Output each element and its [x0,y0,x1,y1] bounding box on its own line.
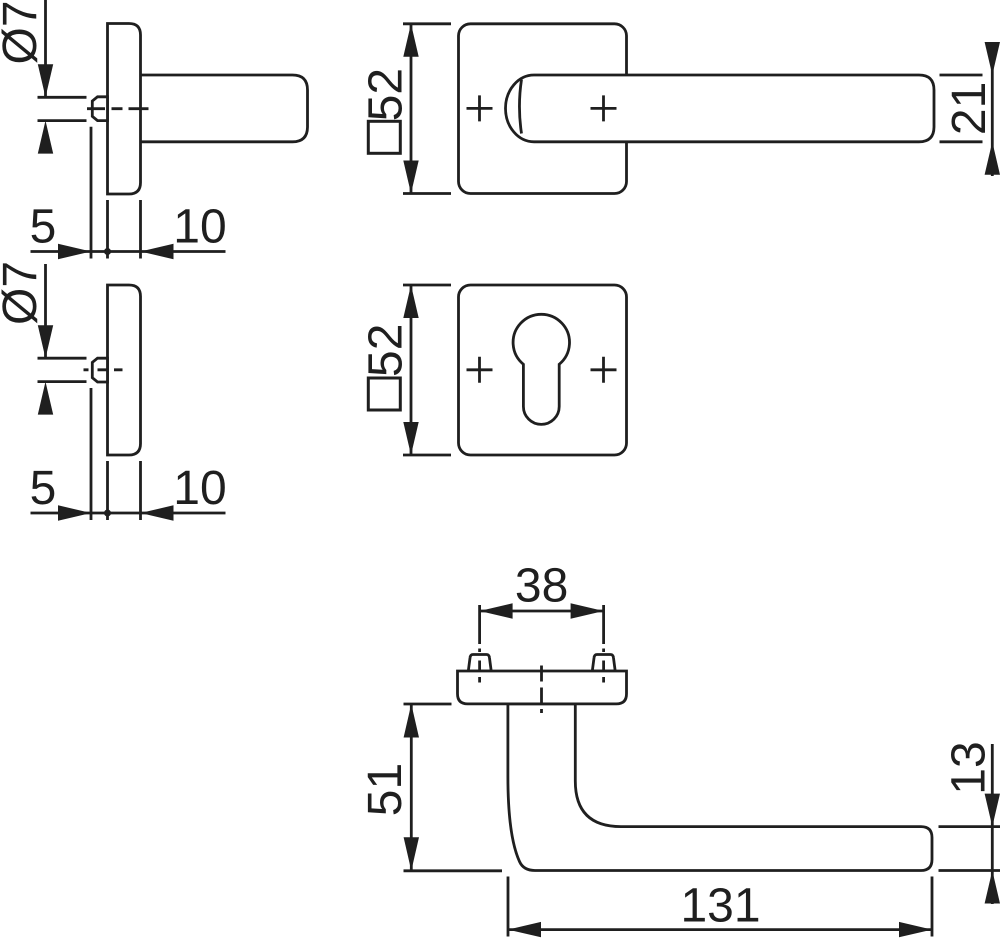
svg-text:13: 13 [943,741,996,794]
view5 screw head right [592,655,615,672]
view5 dim 131 arrow left [508,922,541,937]
svg-text:10: 10 [173,200,226,253]
view4 screw cross left [467,357,493,383]
view5 dim 38 line [480,610,604,613]
view1 grip side view [139,75,308,142]
view3 square rosette [459,24,627,194]
view4 dim 52 lines [403,285,451,455]
view3 dim 52 lines [403,24,451,194]
view4 dim 52 arrow top [403,285,418,318]
view1 dim 5/10 lines [31,127,226,259]
view2 center line [84,368,123,371]
view1 rosette side view [108,24,141,195]
view1 fixing screw [92,97,107,121]
view5 dim 38 arrow left [480,603,513,618]
view2 dim Ø7 arrow top [38,325,53,358]
view1 dim 5 arrow [58,244,91,259]
svg-text:38: 38 [515,560,568,613]
view2 dim node dot [104,510,111,517]
svg-text:Ø7: Ø7 [0,0,47,64]
view5 screw center line left [478,605,481,683]
view3 screw cross left [467,95,493,121]
view4 square symbol [368,378,400,410]
svg-text:131: 131 [680,880,760,933]
svg-text:52: 52 [360,324,413,377]
svg-text:10: 10 [173,462,226,515]
view5 rosette plate top view [458,671,627,704]
view5 plate center line [540,666,543,714]
view3 dim 52 arrow bottom [403,161,418,194]
svg-text:51: 51 [359,763,412,816]
view4 euro profile keyhole [513,314,569,424]
view4 screw cross right [591,357,617,383]
view1 center line [87,107,149,110]
view5 screw head left [468,655,491,672]
svg-text:21: 21 [943,82,996,135]
view5 dim 13 arrow bottom [985,871,1000,904]
view5 dim 131 lines [508,877,932,937]
svg-text:5: 5 [30,462,57,515]
view2 dim 5/10 lines [31,388,226,520]
view2 dim 10 arrow [141,505,174,520]
view3 screw cross right [591,95,617,121]
view5 dim 51 lines [404,704,503,871]
view3 dim 52 arrow top [403,24,418,57]
view3 grip neck arc [519,80,521,134]
view5 dim 131 arrow right [899,922,932,937]
view5 dim 51 arrow bottom [404,837,419,871]
view5 screw center line right [602,605,605,683]
view1 dim Ø7 arrow bottom [38,121,53,154]
svg-text:Ø7: Ø7 [0,261,47,325]
view2 fixing screw [92,358,107,382]
view3 square symbol [368,121,400,153]
view1 dim 10 arrow [141,244,174,259]
view3 dim 21 lines [940,42,993,176]
view2 dim Ø7 line [38,264,87,382]
view3 dim 21 arrow top [985,42,1000,75]
view5 dim 13 lines [939,744,1000,904]
view2 dim Ø7 arrow bottom [38,382,53,415]
view1 dim Ø7 line [38,0,87,121]
view4 dim 52 arrow bottom [403,422,418,455]
view5 dim 51 arrow top [404,704,419,738]
view4 square rosette [459,285,627,455]
view5 dim 13 arrow top [985,794,1000,827]
view3 lever grip front view [506,75,934,142]
view1 dim Ø7 arrow top [38,64,53,97]
view2 rosette side view [108,285,141,455]
view3 dim 21 arrow bottom [985,142,1000,175]
view2 dim 5 arrow [58,505,91,520]
view5 dim 38 arrow right [571,603,604,618]
view5 lever top view [508,704,932,871]
svg-text:52: 52 [360,68,413,121]
view1 dim node dot [104,248,111,255]
svg-text:5: 5 [30,200,57,253]
